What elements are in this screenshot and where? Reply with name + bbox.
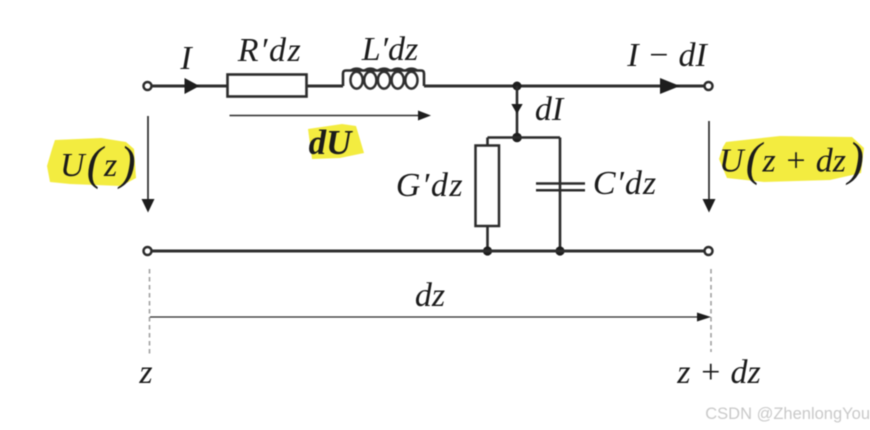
svg-text:G′dz: G′dz: [396, 167, 464, 204]
svg-text:I: I: [179, 40, 193, 77]
svg-text:dU: dU: [309, 123, 354, 162]
svg-text:dz: dz: [415, 277, 445, 314]
svg-text:C′dz: C′dz: [593, 165, 657, 202]
svg-text:L′dz: L′dz: [361, 31, 419, 68]
svg-text:z + dz: z + dz: [676, 354, 760, 391]
svg-text:R′dz: R′dz: [237, 32, 302, 69]
svg-text:dI: dI: [535, 91, 565, 128]
svg-text:I − dI: I − dI: [626, 37, 708, 74]
svg-text:z: z: [138, 354, 152, 391]
svg-text:CSDN @ZhenlongYou: CSDN @ZhenlongYou: [705, 405, 870, 423]
